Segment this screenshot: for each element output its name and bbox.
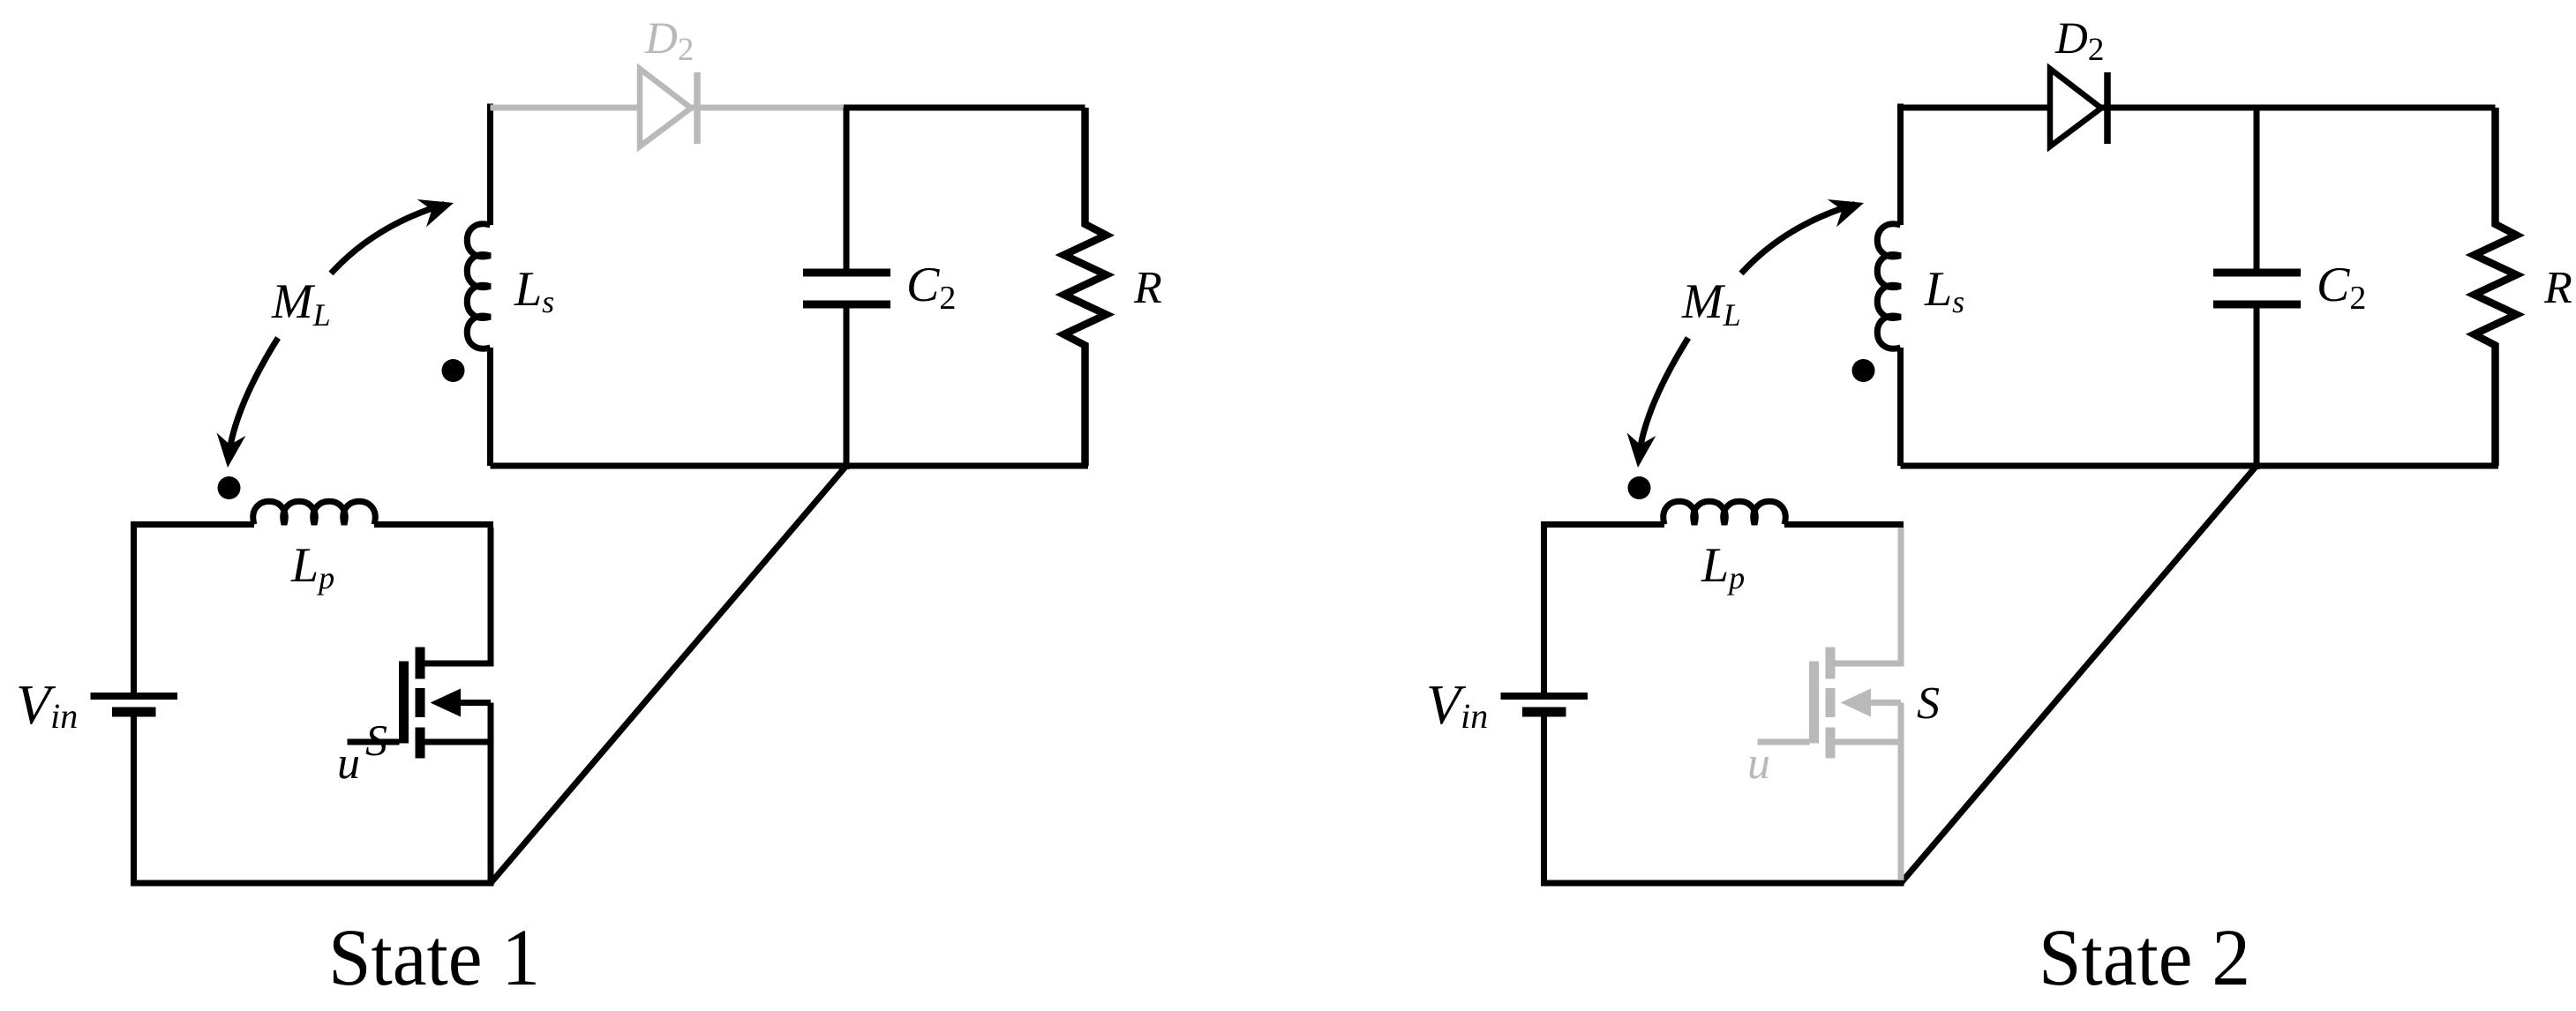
inductor Ls (State 2) — [1877, 224, 1900, 348]
wire: source down to bottom rail (State 1) — [488, 703, 494, 880]
svg-text:C2: C2 — [906, 258, 956, 317]
polarity dot (Lp) (State 1) — [218, 476, 241, 499]
wire: primary-loop top right (State 2) — [1784, 521, 1904, 528]
wire: primary-loop bottom (State 2) — [1541, 880, 1904, 887]
svg-text:State 1: State 1 — [328, 912, 540, 1002]
polarity dot (Ls) (State 1) — [442, 359, 465, 382]
svg-text:u: u — [1747, 738, 1770, 789]
wire: Ls top stub (State 1) — [487, 104, 493, 226]
inductor Lp (State 2) — [1664, 501, 1785, 524]
svg-text:Lp: Lp — [290, 538, 334, 595]
svg-text:C2: C2 — [2317, 258, 2366, 317]
wire: diagonal link (State 2) — [1901, 466, 2257, 883]
transistor S (MOSFET): drain wire from Lp corner (State 1) — [425, 528, 492, 663]
transistor S: source wire (State 1) — [425, 739, 492, 745]
transistor S: gate electrode (State 1) — [399, 662, 409, 744]
svg-text:ML: ML — [1681, 274, 1741, 333]
wire: C2 branch top stub (State 2) — [2254, 108, 2260, 269]
svg-text:Ls: Ls — [514, 262, 554, 319]
transistor S (MOSFET): drain wire from Lp corner (State 2) — [1836, 528, 1902, 663]
wire: primary-loop top left (State 2) — [1544, 521, 1665, 528]
coupling arrow upper (State 2) — [1741, 189, 1868, 273]
transistor S: channel bar (body) (State 1) — [416, 688, 425, 717]
transistor S: body arrow (State 1) — [431, 689, 462, 717]
svg-text:S: S — [365, 715, 387, 765]
polarity dot (Ls) (State 2) — [1852, 359, 1875, 382]
svg-text:Vin: Vin — [1426, 673, 1488, 736]
wire: C2 branch top stub (State 1) — [844, 108, 850, 269]
battery Vin plate short (State 1) — [112, 708, 156, 717]
wire: source down to bottom rail (State 2) — [1898, 703, 1904, 880]
battery Vin plate short (State 2) — [1522, 708, 1566, 717]
transistor S: gate lead wire (State 1) — [348, 739, 400, 745]
wire: primary-loop left lower (State 2) — [1541, 717, 1547, 887]
wire: secondary-loop bottom (State 1) — [491, 463, 1089, 469]
wire: primary-loop left upper (State 2) — [1541, 521, 1547, 693]
wire: Ls bottom stub (State 2) — [1897, 348, 1904, 466]
battery Vin plate long (State 2) — [1501, 693, 1588, 700]
transistor S: gate lead wire (State 2) — [1758, 739, 1810, 745]
transistor S: body wire (State 2) — [1867, 700, 1901, 706]
svg-text:R: R — [1133, 263, 1162, 313]
wire: secondary-loop bottom (State 2) — [1901, 463, 2499, 469]
wire: secondary-loop top (diode branch) (State 2) — [1901, 105, 2255, 111]
wire+resistor R: output loop right side (State 1) — [1064, 108, 1107, 466]
wire: primary-loop top left (State 1) — [134, 521, 255, 528]
inductor Lp (State 1) — [253, 501, 375, 524]
svg-text:ML: ML — [271, 274, 331, 333]
svg-text:D2: D2 — [644, 14, 694, 68]
svg-text:S: S — [1917, 678, 1940, 729]
battery Vin plate long (State 1) — [91, 693, 178, 700]
wire: primary-loop top right (State 1) — [374, 521, 493, 528]
wire: primary-loop left upper (State 1) — [131, 521, 137, 693]
wire+resistor R: output loop right side (State 2) — [2475, 108, 2517, 466]
transistor S: gate electrode (State 2) — [1809, 662, 1819, 744]
diode D2 (State 1) — [640, 69, 697, 146]
svg-text:u: u — [337, 738, 360, 789]
coupling arrow lower (State 2) — [1624, 338, 1688, 469]
capacitor C2 (State 2) — [2213, 273, 2301, 304]
wire: primary-loop left lower (State 1) — [131, 717, 137, 887]
transistor S: channel bar (drain) (State 2) — [1826, 648, 1836, 679]
transistor S: channel bar (body) (State 2) — [1826, 688, 1836, 717]
wire: secondary-loop top right (C2 node to R corner) (State 1) — [844, 105, 1085, 111]
wire: secondary-loop top (diode branch) (State 1) — [491, 105, 845, 111]
transistor S: source wire (State 2) — [1836, 739, 1902, 745]
wire: secondary-loop top right (C2 node to R corner) (State 2) — [2254, 105, 2496, 111]
transistor S: body arrow (State 2) — [1841, 689, 1872, 717]
wire: primary-loop bottom (State 1) — [131, 880, 494, 887]
transistor S: channel bar (drain) (State 1) — [416, 648, 425, 679]
svg-text:State 2: State 2 — [2039, 912, 2250, 1002]
wire: Ls top stub (State 2) — [1897, 104, 1904, 226]
transistor S: channel bar (source) (State 1) — [416, 728, 425, 759]
polarity dot (Lp) (State 2) — [1628, 476, 1651, 499]
svg-text:R: R — [2543, 263, 2572, 313]
transistor S: body wire (State 1) — [457, 700, 491, 706]
wire: Ls bottom stub (State 1) — [487, 348, 493, 466]
svg-text:D2: D2 — [2054, 14, 2104, 68]
inductor Ls (State 1) — [467, 224, 490, 348]
wire: C2 branch bottom stub (State 2) — [2254, 308, 2260, 469]
svg-text:Vin: Vin — [16, 673, 78, 736]
svg-text:Lp: Lp — [1701, 538, 1745, 595]
coupling arrow lower (State 1) — [214, 338, 278, 469]
diode D2 (State 2) — [2050, 69, 2107, 146]
wire: diagonal link (State 1) — [491, 466, 846, 883]
coupling arrow upper (State 1) — [331, 189, 458, 273]
capacitor C2 (State 1) — [803, 273, 890, 304]
wire: C2 branch bottom stub (State 1) — [844, 308, 850, 469]
svg-text:Ls: Ls — [1924, 262, 1964, 319]
transistor S: channel bar (source) (State 2) — [1826, 728, 1836, 759]
